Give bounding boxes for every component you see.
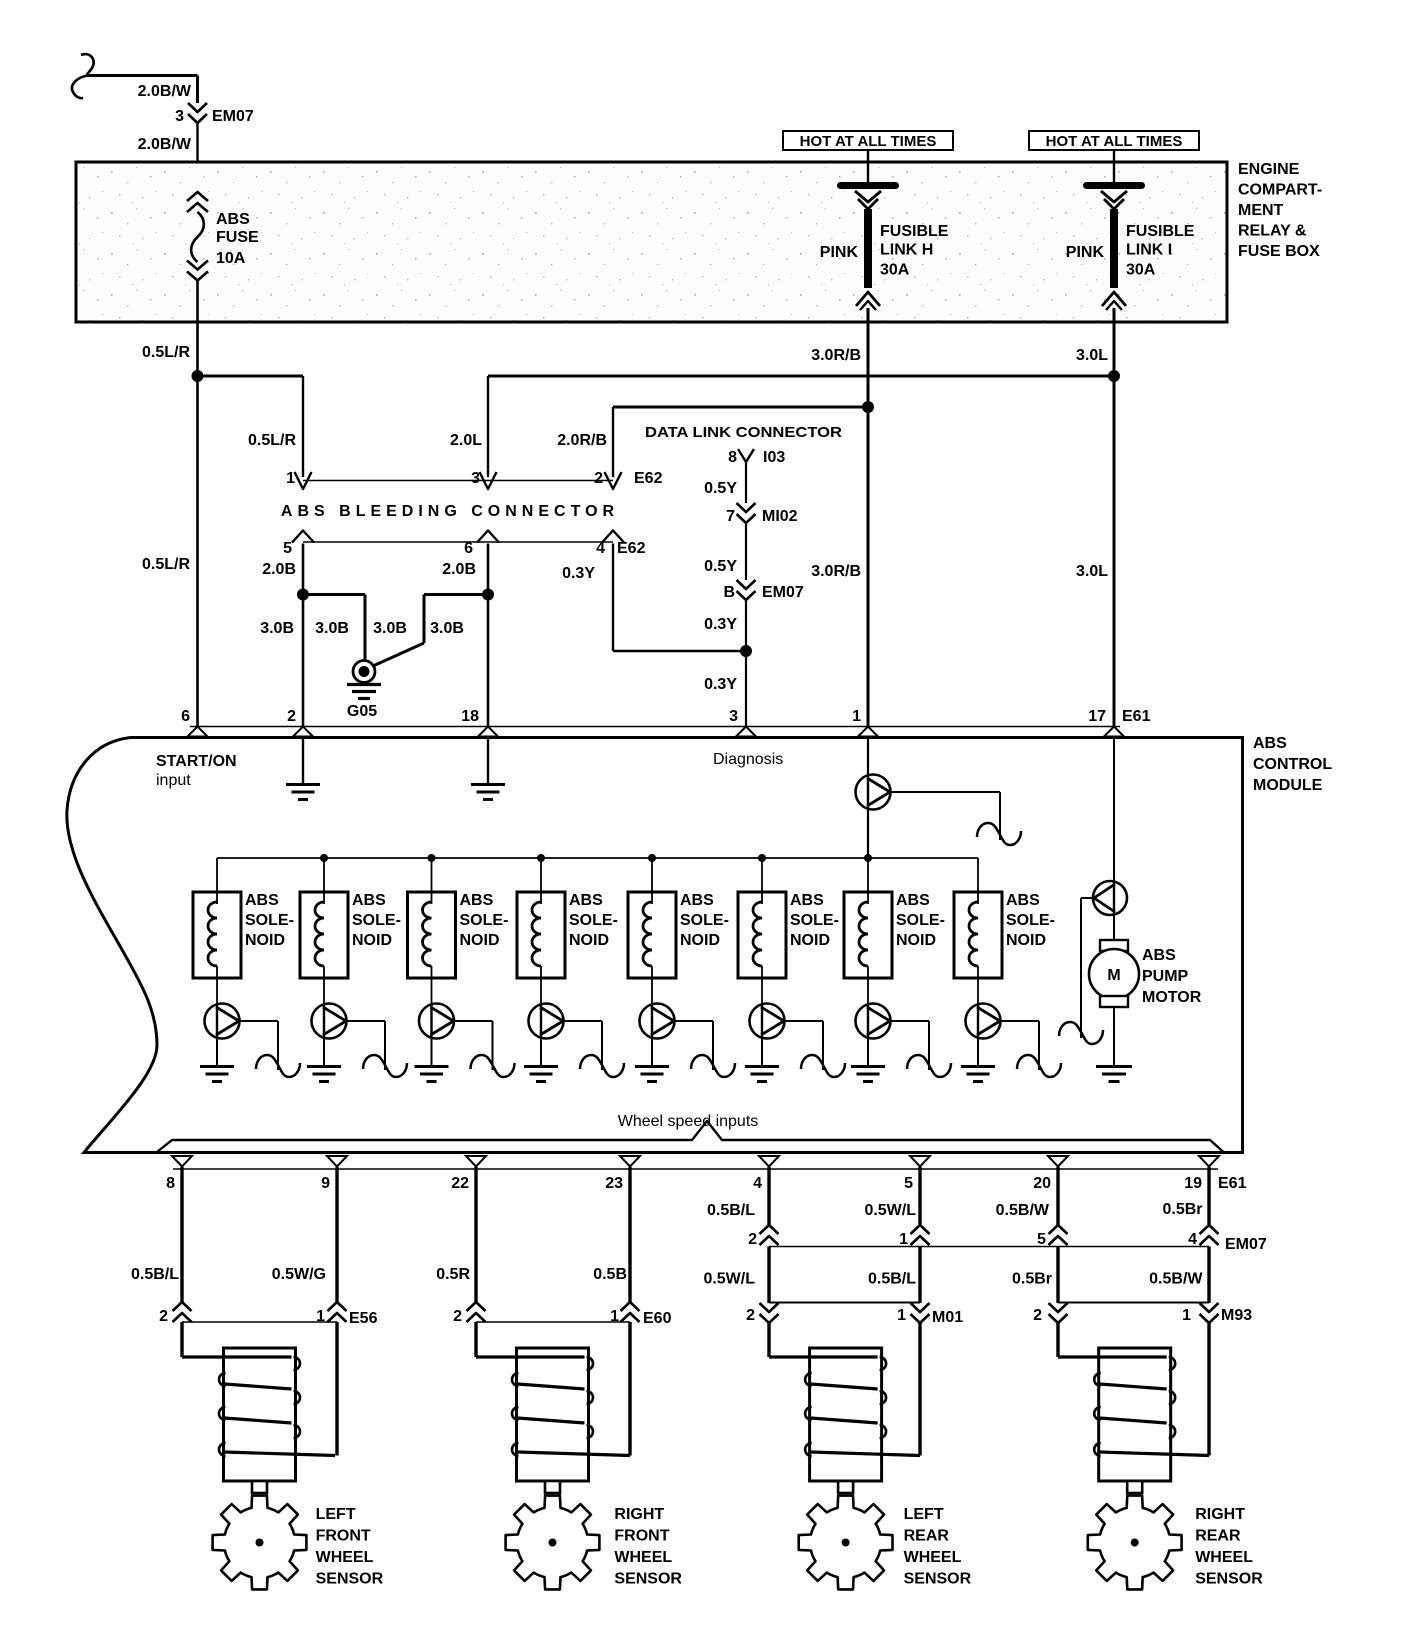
- svg-text:LEFT: LEFT: [316, 1506, 356, 1523]
- svg-text:NOID: NOID: [460, 932, 500, 949]
- svg-text:input: input: [156, 772, 191, 789]
- wire module to E56 pin 2: [180, 1167, 183, 1302]
- svg-text:NOID: NOID: [352, 932, 392, 949]
- svg-text:5: 5: [1037, 1231, 1046, 1248]
- svg-text:0.5W/G: 0.5W/G: [272, 1266, 326, 1283]
- wire E60 pin1 to sensor: [628, 1322, 631, 1456]
- connector M row pin 2 (chevrons): [1049, 1303, 1068, 1312]
- svg-text:2: 2: [287, 708, 296, 725]
- svg-text:2: 2: [159, 1308, 168, 1325]
- transistor (solenoid 8): [966, 1004, 1001, 1039]
- svg-text:NOID: NOID: [245, 932, 285, 949]
- transistor (solenoid 7): [856, 1004, 891, 1039]
- svg-text:SOLE-: SOLE-: [569, 912, 618, 929]
- wire EM07 to M-connector: [1207, 1247, 1210, 1304]
- wire transistor 5 base: [674, 1020, 713, 1022]
- junction dot on 3.0R/B: [862, 401, 874, 413]
- svg-text:NOID: NOID: [1006, 932, 1046, 949]
- ABS solenoid 6: [738, 892, 786, 978]
- svg-text:6: 6: [464, 540, 473, 557]
- wire EM07 to M-connector: [918, 1247, 921, 1304]
- wire solenoid 5 to transistor: [651, 966, 653, 1004]
- svg-text:WHEEL: WHEEL: [1195, 1549, 1253, 1566]
- wire module pin to EM07 pin 5: [1056, 1167, 1059, 1225]
- svg-text:E61: E61: [1122, 708, 1151, 725]
- squiggle (diagnosis base): [977, 823, 1021, 845]
- wire transistor 1 emitter to ground: [216, 1039, 218, 1067]
- wire M pin 2 to sensor: [1056, 1321, 1059, 1357]
- wire EM07 to M-connector: [1056, 1247, 1059, 1304]
- wire transistor 6 emitter to ground: [761, 1039, 763, 1067]
- wire E56 pin2 to sensor: [180, 1322, 183, 1357]
- left rear wheel sensor coil: [810, 1348, 882, 1481]
- wire M pin 1 to sensor: [1207, 1321, 1210, 1456]
- svg-text:NOID: NOID: [680, 932, 720, 949]
- wire 0.5L/R down to module pin 6: [196, 376, 199, 727]
- connector E62 pin 6: [477, 531, 499, 543]
- wire transistor 8 base: [1000, 1020, 1039, 1022]
- svg-text:ABS: ABS: [569, 892, 603, 909]
- connector EM07 pin 1 (chevrons): [911, 1225, 930, 1234]
- wire from hot feed: [1113, 150, 1115, 182]
- wire diagnosis to solenoid bus: [867, 810, 869, 859]
- svg-text:FUSIBLE: FUSIBLE: [880, 223, 949, 240]
- svg-text:0.5L/R: 0.5L/R: [142, 556, 190, 573]
- svg-text:4: 4: [596, 540, 605, 557]
- svg-text:2: 2: [746, 1307, 755, 1324]
- ground (solenoid 6): [745, 1065, 779, 1068]
- wire transistor 3 emitter to ground: [431, 1039, 433, 1067]
- svg-text:0.5B/L: 0.5B/L: [131, 1266, 179, 1283]
- connector E62 pin 4: [602, 531, 624, 543]
- svg-text:FUSE BOX: FUSE BOX: [1238, 243, 1320, 260]
- transistor (solenoid 2): [312, 1004, 347, 1039]
- svg-text:EM07: EM07: [212, 108, 254, 125]
- svg-text:0.5B/L: 0.5B/L: [707, 1202, 755, 1219]
- svg-text:0.5Br: 0.5Br: [1162, 1201, 1202, 1218]
- wire bus to solenoid 7: [867, 858, 869, 904]
- ground (solenoid 4): [524, 1065, 558, 1068]
- svg-text:0.5Y: 0.5Y: [704, 480, 737, 497]
- wire EM07 to M-connector: [767, 1247, 770, 1304]
- svg-text:E62: E62: [634, 470, 663, 487]
- svg-text:0.3Y: 0.3Y: [704, 676, 737, 693]
- squiggle (solenoid 8 base): [1017, 1055, 1061, 1077]
- wire transistor 2 base: [346, 1020, 385, 1022]
- module pin 9 (bottom): [327, 1156, 347, 1167]
- wire 0.5Y pin8 to MI02: [745, 462, 747, 503]
- svg-text:HOT AT ALL TIMES: HOT AT ALL TIMES: [800, 133, 937, 150]
- ground (solenoid 1): [200, 1065, 234, 1068]
- svg-text:8: 8: [166, 1175, 175, 1192]
- module pin 5 (bottom): [910, 1156, 930, 1167]
- ABS solenoid 1: [193, 892, 241, 978]
- connector EM07 pin 3 (double chevron): [188, 103, 207, 112]
- svg-text:30A: 30A: [880, 262, 910, 279]
- connector E60 pin 1 (chevrons): [621, 1302, 640, 1311]
- squiggle (solenoid 1 base): [256, 1055, 300, 1077]
- svg-text:WHEEL: WHEEL: [614, 1549, 672, 1566]
- svg-text:2: 2: [748, 1231, 757, 1248]
- wire bus to solenoid 6: [761, 858, 763, 904]
- svg-text:2.0B: 2.0B: [442, 561, 476, 578]
- svg-text:22: 22: [451, 1175, 469, 1192]
- svg-text:M: M: [1107, 967, 1120, 984]
- svg-text:1: 1: [316, 1308, 325, 1325]
- svg-text:ABS: ABS: [245, 892, 279, 909]
- svg-text:PUMP: PUMP: [1142, 968, 1189, 985]
- svg-text:Diagnosis: Diagnosis: [713, 751, 783, 768]
- transistor (solenoid 3): [419, 1004, 454, 1039]
- svg-text:7: 7: [726, 508, 735, 525]
- wire bus to solenoid 3: [431, 858, 433, 904]
- wire fuse to junction: [196, 280, 199, 376]
- svg-text:2.0B/W: 2.0B/W: [138, 136, 192, 153]
- wire bus to solenoid 4: [540, 858, 542, 904]
- connector E56 line: [182, 1321, 337, 1323]
- connector M93 line: [1058, 1302, 1209, 1304]
- wire bus to solenoid 2: [323, 858, 325, 904]
- svg-text:20: 20: [1033, 1175, 1051, 1192]
- svg-text:LINK I: LINK I: [1126, 242, 1172, 259]
- svg-text:COMPART-: COMPART-: [1238, 182, 1322, 199]
- svg-text:3: 3: [471, 470, 480, 487]
- svg-text:0.3Y: 0.3Y: [562, 565, 595, 582]
- svg-text:8: 8: [728, 449, 737, 466]
- svg-text:NOID: NOID: [896, 932, 936, 949]
- svg-text:SENSOR: SENSOR: [1195, 1571, 1263, 1588]
- connector EM07 pin B (double chevron): [737, 580, 756, 589]
- svg-text:SENSOR: SENSOR: [904, 1571, 972, 1588]
- svg-text:0.5R: 0.5R: [436, 1266, 470, 1283]
- svg-text:ABS: ABS: [680, 892, 714, 909]
- wire module pin to EM07 pin 2: [767, 1167, 770, 1225]
- wire solenoid 2 to transistor: [323, 966, 325, 1004]
- bus junction dot: [758, 854, 766, 862]
- svg-text:START/ON: START/ON: [156, 753, 237, 770]
- connector EM07 pin 4 (chevrons): [1200, 1225, 1219, 1234]
- module pin 17 (top): [1104, 727, 1124, 737]
- module top connector line: [190, 726, 1120, 728]
- svg-text:1: 1: [852, 708, 861, 725]
- wire transistor 3 base: [454, 1020, 493, 1022]
- svg-text:17: 17: [1088, 708, 1106, 725]
- svg-text:ABS: ABS: [790, 892, 824, 909]
- svg-text:3.0B: 3.0B: [430, 620, 464, 637]
- wire 2.0R/B tap from 3.0R/B line: [613, 406, 868, 409]
- svg-text:M93: M93: [1221, 1307, 1252, 1324]
- ABS solenoid 7: [844, 892, 892, 978]
- svg-text:NOID: NOID: [569, 932, 609, 949]
- svg-text:WHEEL: WHEEL: [316, 1549, 374, 1566]
- left front wheel sensor coil: [224, 1348, 296, 1481]
- svg-text:3.0R/B: 3.0R/B: [811, 347, 861, 364]
- wire 3.0B to ground G05 (left branch): [303, 593, 365, 596]
- svg-text:CONTROL: CONTROL: [1253, 756, 1332, 773]
- svg-text:WHEEL: WHEEL: [904, 1549, 962, 1566]
- svg-text:5: 5: [904, 1175, 913, 1192]
- ABS solenoid 3: [408, 892, 456, 978]
- wire diagnosis transistor base: [890, 791, 1000, 793]
- wire pump to ground: [1113, 1007, 1115, 1066]
- svg-text:0.5B/L: 0.5B/L: [868, 1271, 916, 1288]
- svg-text:ABS: ABS: [1253, 735, 1287, 752]
- svg-text:0.5Y: 0.5Y: [704, 558, 737, 575]
- ground (pin 2): [286, 783, 320, 786]
- svg-text:PINK: PINK: [1066, 244, 1105, 261]
- wire 3.0R/B fusible link H down to module pin 1: [867, 308, 870, 727]
- svg-text:SOLE-: SOLE-: [352, 912, 401, 929]
- left front wheel sensor tone wheel: [213, 1496, 307, 1590]
- connector EM07 line: [769, 1246, 1209, 1248]
- fuse ABS FUSE 10A: [187, 192, 208, 201]
- module pin 22 (bottom): [466, 1156, 486, 1167]
- wire module pin to EM07 pin 1: [918, 1167, 921, 1225]
- connector EM07 pin 2 (chevrons): [760, 1225, 779, 1234]
- connector E56 pin 1 (chevrons): [328, 1302, 347, 1311]
- svg-text:SOLE-: SOLE-: [680, 912, 729, 929]
- left rear wheel sensor tone wheel: [799, 1496, 893, 1590]
- svg-text:E60: E60: [643, 1310, 672, 1327]
- wire solenoid 6 to transistor: [761, 966, 763, 1004]
- wire solenoid 8 to transistor: [977, 966, 979, 1004]
- connector E62 pin 5: [292, 531, 314, 543]
- svg-text:ABS: ABS: [460, 892, 494, 909]
- transistor (solenoid 4): [529, 1004, 564, 1039]
- wire solenoid 7 to transistor: [867, 966, 869, 1004]
- wire module to E56 pin 1: [335, 1167, 338, 1302]
- right front wheel sensor coil: [517, 1348, 589, 1481]
- svg-text:ABS: ABS: [1142, 947, 1176, 964]
- wire transistor 2 emitter to ground: [323, 1039, 325, 1067]
- svg-text:FUSE: FUSE: [216, 229, 259, 246]
- ground (pump): [1096, 1065, 1132, 1068]
- junction dot 3.0B left: [297, 589, 309, 601]
- wire pin 18 to ground: [487, 738, 489, 784]
- svg-text:0.5W/L: 0.5W/L: [864, 1202, 916, 1219]
- squiggle (solenoid 6 base): [801, 1055, 845, 1077]
- wire bus to solenoid 5: [651, 858, 653, 904]
- wire M pin 2 to sensor: [767, 1321, 770, 1357]
- right rear wheel sensor tone wheel: [1088, 1496, 1182, 1590]
- wire E60 pin2 to sensor: [474, 1322, 477, 1357]
- svg-text:E61: E61: [1218, 1175, 1247, 1192]
- svg-text:4: 4: [1188, 1231, 1197, 1248]
- wire E56 pin1 to sensor: [335, 1322, 338, 1456]
- svg-text:0.5L/R: 0.5L/R: [248, 432, 296, 449]
- module pin 8 (bottom): [172, 1156, 192, 1167]
- wire transistor 8 emitter to ground: [977, 1039, 979, 1067]
- fusible link I 30A: [1083, 182, 1145, 189]
- svg-text:5: 5: [283, 540, 292, 557]
- svg-text:ABS: ABS: [216, 211, 250, 228]
- svg-text:ABS: ABS: [1006, 892, 1040, 909]
- svg-text:2.0B: 2.0B: [262, 561, 296, 578]
- svg-text:SENSOR: SENSOR: [316, 1571, 384, 1588]
- wire pin 2 to ground: [302, 738, 304, 784]
- svg-text:RIGHT: RIGHT: [614, 1506, 664, 1523]
- svg-text:0.5L/R: 0.5L/R: [142, 344, 190, 361]
- svg-text:E56: E56: [349, 1310, 378, 1327]
- wire 3.0L fusible link I down to module pin 17: [1113, 308, 1116, 727]
- ground (solenoid 8): [961, 1065, 995, 1068]
- wire bus to solenoid 1: [216, 858, 218, 904]
- squiggle (solenoid 2 base): [363, 1055, 407, 1077]
- wire 2.0B/W from off-page to EM07 pin 3: [86, 74, 198, 77]
- svg-text:3.0L: 3.0L: [1076, 347, 1108, 364]
- svg-text:2.0B/W: 2.0B/W: [138, 83, 192, 100]
- wire module pin to EM07 pin 4: [1207, 1167, 1210, 1225]
- connector E62 pin 2: [605, 472, 622, 489]
- off-page squiggle (wire continues): [81, 54, 94, 75]
- wire pump transistor base: [1081, 897, 1094, 899]
- squiggle (solenoid 5 base): [691, 1055, 735, 1077]
- module pin 6 (top): [188, 727, 208, 737]
- transistor (solenoid 6): [750, 1004, 785, 1039]
- ground (solenoid 2): [307, 1065, 341, 1068]
- wire solenoid 4 to transistor: [540, 966, 542, 1004]
- svg-text:3: 3: [729, 708, 738, 725]
- svg-text:10A: 10A: [216, 250, 246, 267]
- transistor (solenoid 5): [640, 1004, 675, 1039]
- svg-text:ABS: ABS: [896, 892, 930, 909]
- svg-text:EM07: EM07: [762, 584, 804, 601]
- wire solenoid 1 to transistor: [216, 966, 218, 1004]
- module pin 23 (bottom): [620, 1156, 640, 1167]
- svg-text:9: 9: [321, 1175, 330, 1192]
- svg-text:4: 4: [753, 1175, 762, 1192]
- svg-text:3.0B: 3.0B: [373, 620, 407, 637]
- svg-text:FUSIBLE: FUSIBLE: [1126, 223, 1195, 240]
- module bottom connector line: [173, 1168, 1218, 1170]
- squiggle (solenoid 7 base): [907, 1055, 951, 1077]
- svg-text:1: 1: [897, 1307, 906, 1324]
- bus junction dot: [320, 854, 328, 862]
- wire 2.0B/W into fuse box: [196, 123, 198, 192]
- svg-text:EM07: EM07: [1225, 1236, 1267, 1253]
- svg-text:0.3Y: 0.3Y: [704, 616, 737, 633]
- connector M row pin 2 (chevrons): [760, 1303, 779, 1312]
- svg-text:2: 2: [594, 470, 603, 487]
- svg-text:SENSOR: SENSOR: [614, 1571, 682, 1588]
- wire transistor 4 base: [563, 1020, 602, 1022]
- module pin 1 (top): [858, 727, 878, 737]
- ABS solenoid 5: [628, 892, 676, 978]
- svg-text:SOLE-: SOLE-: [790, 912, 839, 929]
- wire junction to bleeding connector pin 1: [198, 375, 304, 378]
- svg-text:1: 1: [610, 1308, 619, 1325]
- connector E62 pin 1: [295, 472, 312, 489]
- svg-text:DATA LINK CONNECTOR: DATA LINK CONNECTOR: [645, 424, 842, 441]
- svg-text:0.5B/W: 0.5B/W: [1149, 1271, 1203, 1288]
- connector E60 pin 2 (chevrons): [467, 1302, 486, 1311]
- svg-text:18: 18: [461, 708, 479, 725]
- transistor (diagnosis): [856, 775, 891, 810]
- svg-text:MOTOR: MOTOR: [1142, 989, 1202, 1006]
- fusible link H 30A: [837, 182, 899, 189]
- svg-text:3.0B: 3.0B: [260, 620, 294, 637]
- transistor (pump): [1093, 881, 1127, 915]
- wire solenoid 3 to transistor: [431, 966, 433, 1004]
- bus junction dot: [864, 854, 872, 862]
- ABS solenoid 2: [300, 892, 348, 978]
- bus junction dot: [428, 854, 436, 862]
- wire 0.3Y EM07 down to module pin 3: [745, 600, 747, 727]
- ground G05: [353, 661, 375, 683]
- svg-text:23: 23: [605, 1175, 623, 1192]
- connector I03 pin 8 (Y symbol): [738, 449, 754, 462]
- wire 3.0B to ground G05 (right branch): [424, 593, 488, 596]
- wire pin6 to module pin 18: [487, 544, 490, 728]
- wire transistor 4 emitter to ground: [540, 1039, 542, 1067]
- svg-text:0.5B/W: 0.5B/W: [996, 1202, 1050, 1219]
- wire transistor to pump motor: [1113, 915, 1115, 940]
- svg-text:0.5Br: 0.5Br: [1012, 1271, 1052, 1288]
- wheel speed inputs bracket: [157, 1121, 1224, 1153]
- module pin 20 (bottom): [1048, 1156, 1068, 1167]
- module pin 2 (top): [293, 727, 313, 737]
- svg-text:3.0R/B: 3.0R/B: [811, 563, 861, 580]
- svg-text:G05: G05: [347, 703, 377, 720]
- right front wheel sensor tone wheel: [506, 1496, 600, 1590]
- svg-text:NOID: NOID: [790, 932, 830, 949]
- right rear wheel sensor coil: [1099, 1348, 1171, 1481]
- squiggle (solenoid 3 base): [471, 1055, 515, 1077]
- svg-text:REAR: REAR: [1195, 1528, 1241, 1545]
- svg-text:3.0B: 3.0B: [315, 620, 349, 637]
- ABS solenoid 8: [954, 892, 1002, 978]
- ABS control module outline: [67, 738, 1243, 1153]
- wire M pin 1 to sensor: [918, 1321, 921, 1456]
- svg-text:SOLE-: SOLE-: [1006, 912, 1055, 929]
- svg-text:SOLE-: SOLE-: [245, 912, 294, 929]
- bus junction dot: [648, 854, 656, 862]
- junction dot 0.3Y: [740, 645, 752, 657]
- connector E62 row 2 line: [303, 541, 613, 543]
- svg-text:LEFT: LEFT: [904, 1506, 944, 1523]
- svg-text:FRONT: FRONT: [614, 1528, 669, 1545]
- wire 0.3Y pin4 down: [612, 544, 614, 652]
- svg-text:6: 6: [181, 708, 190, 725]
- svg-text:M01: M01: [932, 1309, 963, 1326]
- wire module to E60 pin 2: [474, 1167, 477, 1302]
- svg-text:30A: 30A: [1126, 262, 1156, 279]
- junction dot 3.0B right: [482, 589, 494, 601]
- connector E56 pin 2 (chevrons): [173, 1302, 192, 1311]
- svg-text:ABS BLEEDING CONNECTOR: ABS BLEEDING CONNECTOR: [281, 503, 619, 520]
- ground (solenoid 5): [635, 1065, 669, 1068]
- ground (solenoid 3): [415, 1065, 449, 1068]
- solenoid supply bus: [217, 857, 978, 859]
- svg-text:MODULE: MODULE: [1253, 777, 1323, 794]
- connector E60 line: [476, 1321, 630, 1323]
- svg-text:I03: I03: [763, 449, 785, 466]
- svg-text:SOLE-: SOLE-: [896, 912, 945, 929]
- svg-text:E62: E62: [617, 540, 646, 557]
- HOT AT ALL TIMES box 1: [783, 131, 953, 150]
- svg-text:ENGINE: ENGINE: [1238, 161, 1300, 178]
- wire module to E60 pin 1: [628, 1167, 631, 1302]
- wire pin5 to module pin 2: [302, 544, 305, 728]
- wire transistor 1 base: [239, 1020, 278, 1022]
- svg-text:MENT: MENT: [1238, 202, 1284, 219]
- module pin 3 (top): [736, 727, 756, 737]
- wire 0.5Y MI02 to EM07: [745, 523, 747, 580]
- HOT AT ALL TIMES box 2: [1029, 131, 1199, 150]
- connector M row pin 1 (chevrons): [911, 1303, 930, 1312]
- svg-text:2: 2: [453, 1308, 462, 1325]
- squiggle (pump base): [1059, 1022, 1103, 1044]
